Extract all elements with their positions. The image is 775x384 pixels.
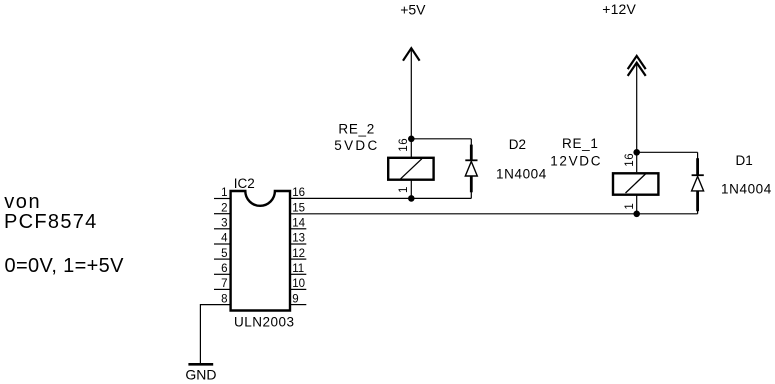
svg-text:12VDC: 12VDC: [550, 153, 602, 168]
junction dot RE_1 bottom: [633, 211, 640, 218]
pin 1: [214, 187, 230, 199]
IC IC2 body (ULN2003): [231, 191, 290, 311]
pin 3: [214, 218, 230, 230]
wire RE_1 bottom node to D1 bottom: [637, 213, 698, 215]
wire RE_1 top node to D1 top: [637, 151, 698, 153]
svg-text:D2: D2: [509, 137, 526, 152]
diode D2: [465, 139, 477, 199]
svg-text:14: 14: [292, 218, 305, 230]
junction dot RE_2 bottom: [408, 195, 415, 202]
svg-text:5: 5: [221, 248, 227, 260]
svg-text:RE_1: RE_1: [562, 136, 599, 151]
svg-text:1N4004: 1N4004: [721, 181, 772, 196]
svg-text:PCF8574: PCF8574: [4, 211, 98, 233]
svg-text:13: 13: [292, 233, 305, 245]
wire pin16 to RE_2 bottom node: [291, 197, 412, 199]
pin 2: [214, 202, 230, 214]
svg-text:3: 3: [221, 218, 227, 230]
ground: [185, 364, 216, 382]
svg-text:1: 1: [398, 187, 410, 193]
junction dot RE_1 top: [633, 149, 640, 156]
svg-text:+5V: +5V: [400, 1, 426, 17]
svg-text:6: 6: [221, 263, 227, 275]
wire RE_2 bottom node to D2 bottom: [411, 197, 471, 199]
svg-text:D1: D1: [736, 153, 753, 168]
relay RE_2: [388, 139, 433, 199]
pin 14: [291, 218, 307, 230]
svg-text:1N4004: 1N4004: [496, 166, 547, 181]
wire pin8 to GND: [200, 305, 229, 364]
svg-text:8: 8: [221, 293, 227, 305]
note text von PCF8574: [4, 191, 124, 277]
svg-text:16: 16: [624, 153, 636, 167]
svg-text:IC2: IC2: [234, 176, 255, 191]
svg-text:9: 9: [292, 293, 298, 305]
svg-text:1: 1: [624, 203, 636, 209]
svg-text:10: 10: [292, 278, 305, 290]
svg-text:2: 2: [221, 202, 227, 214]
svg-text:1: 1: [221, 187, 227, 199]
diode D1: [692, 152, 704, 214]
svg-text:16: 16: [292, 187, 305, 199]
pin 5: [214, 248, 230, 260]
svg-text:0=0V, 1=+5V: 0=0V, 1=+5V: [5, 255, 125, 277]
svg-text:16: 16: [398, 138, 410, 152]
pin 12: [291, 248, 307, 260]
pin 16: [292, 187, 305, 199]
pin 9: [291, 293, 307, 305]
pin 7: [214, 278, 230, 290]
pin 13: [291, 233, 307, 245]
svg-text:7: 7: [221, 278, 227, 290]
svg-text:15: 15: [292, 202, 305, 214]
pin 8: [221, 293, 227, 305]
svg-text:RE_2: RE_2: [338, 121, 375, 136]
svg-text:+12V: +12V: [602, 1, 636, 17]
supply +5V symbol: [400, 1, 426, 139]
pin 4: [214, 233, 230, 245]
wire RE_2 top node to D2 top: [411, 138, 471, 140]
svg-text:von: von: [4, 191, 41, 213]
svg-text:ULN2003: ULN2003: [234, 314, 295, 329]
junction dot RE_2 top: [408, 136, 415, 143]
svg-text:11: 11: [292, 263, 304, 275]
pin 6: [214, 263, 230, 275]
wire pin15 to RE_1 bottom node: [291, 213, 637, 215]
svg-text:12: 12: [292, 248, 305, 260]
svg-text:4: 4: [221, 233, 228, 245]
pin 10: [291, 278, 307, 290]
svg-text:GND: GND: [185, 366, 216, 382]
supply +12V symbol: [602, 1, 646, 153]
pin 15: [292, 202, 305, 214]
pin 11: [291, 263, 307, 275]
relay RE_1: [613, 152, 658, 214]
svg-text:5VDC: 5VDC: [334, 138, 379, 153]
